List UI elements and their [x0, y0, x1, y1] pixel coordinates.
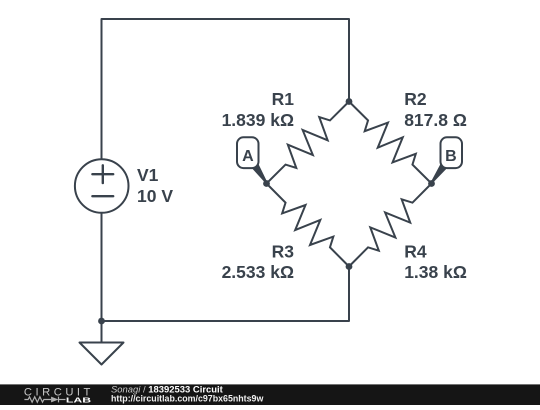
svg-text:V1: V1	[137, 165, 159, 185]
svg-text:LAB: LAB	[66, 395, 92, 404]
svg-text:2.533 kΩ: 2.533 kΩ	[222, 262, 294, 282]
svg-text:R4: R4	[404, 242, 427, 262]
svg-text:1.38 kΩ: 1.38 kΩ	[404, 262, 467, 282]
svg-text:10 V: 10 V	[137, 186, 173, 206]
svg-text:http://circuitlab.com/c97bx65n: http://circuitlab.com/c97bx65nhts9w	[111, 394, 263, 404]
svg-text:A: A	[242, 148, 254, 165]
svg-text:817.8 Ω: 817.8 Ω	[404, 110, 467, 130]
svg-text:R3: R3	[272, 242, 295, 262]
svg-text:R2: R2	[404, 89, 427, 109]
svg-text:1.839 kΩ: 1.839 kΩ	[222, 110, 294, 130]
svg-text:R1: R1	[272, 89, 295, 109]
svg-text:B: B	[445, 148, 457, 165]
